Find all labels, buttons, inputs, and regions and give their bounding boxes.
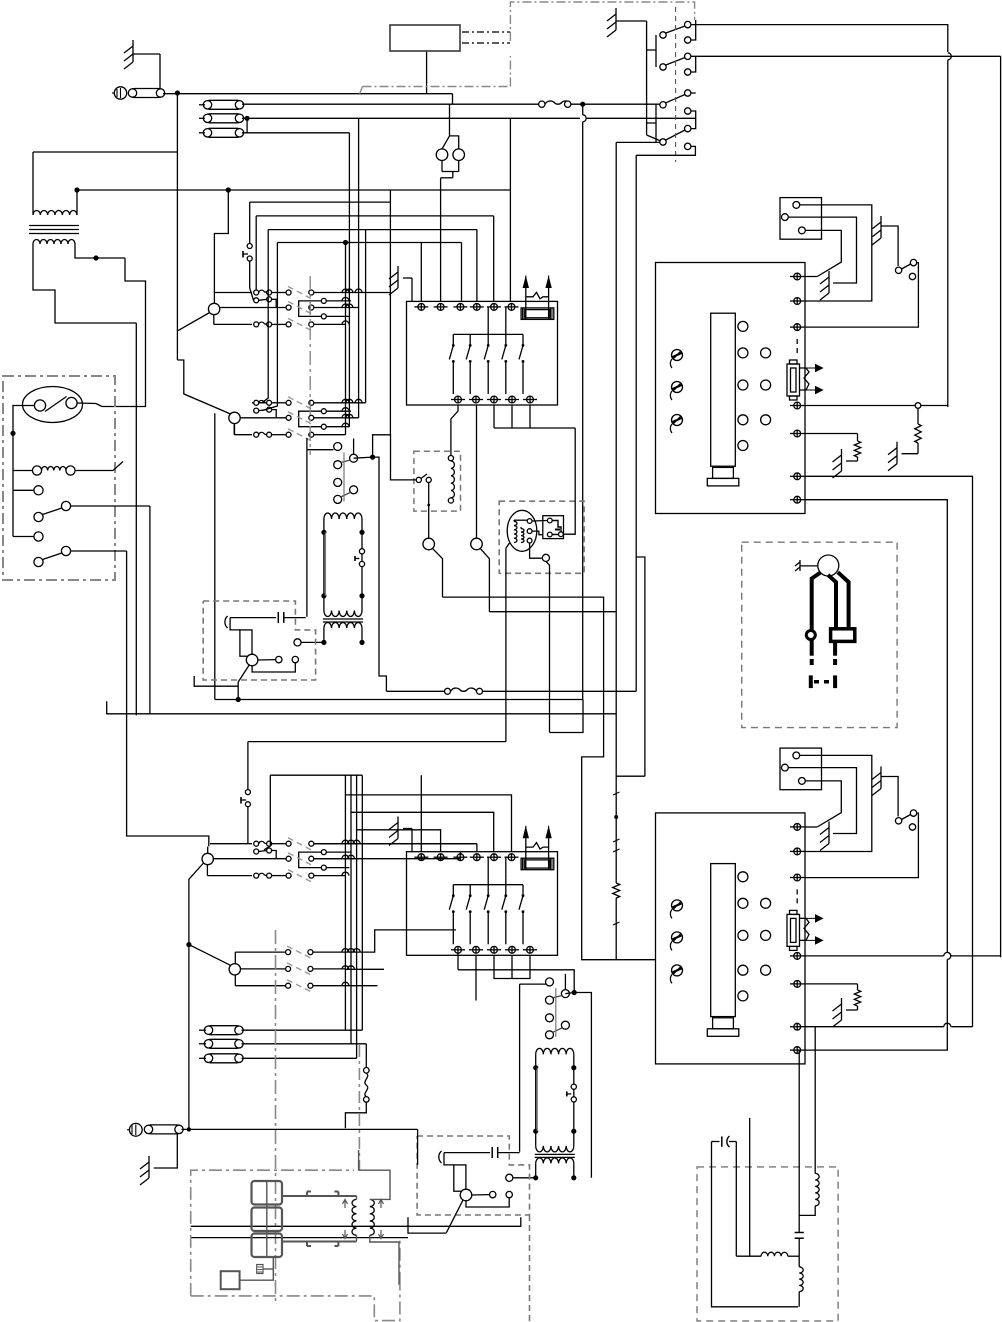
connector circle ign1	[542, 554, 549, 561]
flame sensor ellipse	[507, 510, 537, 551]
sensor coils	[514, 521, 524, 542]
module internal	[552, 521, 561, 535]
screw marks PCB2	[670, 900, 682, 984]
wire bank2 stubA	[262, 230, 268, 403]
control board box PCB2	[656, 813, 806, 1064]
wire F1 to rotary	[242, 103, 540, 105]
bus B4 x362	[361, 775, 363, 1030]
wire F1 stub left	[199, 105, 205, 133]
sensor rect igniter-2	[454, 1165, 466, 1191]
pressure sensor 63H2 circle + bank	[229, 397, 366, 441]
wire B2 row1 up	[345, 930, 456, 952]
cap C-top	[712, 1136, 737, 1147]
wire x799 down	[798, 1050, 800, 1232]
transformer T3 right coil	[370, 1199, 375, 1235]
wire pin3 blade CN2	[804, 781, 841, 827]
node T1 sec	[93, 255, 98, 260]
wire rect top igniter-2	[444, 1153, 454, 1165]
terminals top 52C1	[414, 304, 518, 311]
coil L1	[436, 149, 448, 161]
thermostat oval switch	[23, 387, 83, 423]
bus B2 x351	[350, 775, 352, 1044]
wire y428 line	[494, 405, 575, 428]
wire 5X sw left	[373, 435, 417, 480]
wire pin2 CN1	[788, 217, 856, 283]
cap C2	[795, 1233, 804, 1267]
coil LC horizontal	[736, 1252, 799, 1256]
striped connector	[257, 1265, 263, 1274]
wire y775 line	[270, 774, 362, 776]
node relay 52C	[572, 990, 577, 995]
wire B1 top feed	[207, 847, 209, 854]
relay contacts 52C	[546, 978, 570, 1039]
interrupter contact 52C	[567, 1084, 577, 1102]
ground Gb CN2	[872, 767, 881, 796]
wire diag out OL-51C	[238, 665, 249, 700]
dashed box LC filter	[697, 1167, 838, 1321]
ground Gd1	[833, 449, 842, 478]
T3 arrows	[343, 1200, 384, 1239]
wire stub B1b	[264, 775, 270, 850]
wire ladder y216	[256, 215, 494, 217]
connector pins CN1	[782, 202, 806, 234]
board fuse PCB1	[787, 339, 823, 400]
wire module top	[532, 520, 547, 523]
terminals bottom 52C2	[451, 946, 537, 953]
wire t7 loop	[804, 500, 950, 1050]
capacitor OL-51C	[230, 612, 306, 623]
pressure sensor 63H2' bank B2	[229, 946, 345, 992]
heater stack	[252, 1181, 283, 1257]
wire ign1 down2	[546, 562, 550, 733]
pressure sensor 63H1 circle + bank	[208, 287, 390, 331]
switch SW1 blades	[666, 26, 685, 140]
wire coil right	[75, 462, 123, 471]
wire loop bottom igniter-2	[466, 1198, 509, 1207]
wire S down	[345, 1102, 366, 1128]
wire x623	[636, 155, 645, 776]
wire 52X to OL cap	[306, 450, 308, 617]
boundary divider bottom2	[358, 1045, 360, 1170]
wire A switch to right rail	[691, 25, 951, 407]
wire O1 feed	[214, 190, 228, 303]
igniter module box	[543, 516, 564, 539]
wire igniter relay box	[414, 451, 461, 511]
pressure sensor 63H1' bank B1	[202, 838, 477, 882]
board terminals PCB2	[790, 824, 804, 1054]
wire B2 diag	[189, 945, 230, 966]
resistor R2	[846, 434, 861, 462]
node relay 52X	[370, 455, 375, 460]
wire B2 row2 end	[345, 968, 384, 970]
wire Gb to relay CN1	[881, 226, 898, 266]
wire T1 sec left down	[33, 244, 136, 323]
wire y713 line	[107, 701, 617, 714]
fuse F1 capsule	[203, 100, 243, 109]
wire ladder y230	[268, 229, 477, 231]
coil LC vertical	[799, 1267, 803, 1307]
sensor rect OL-51C	[240, 630, 252, 656]
ground (chassis) top-left	[124, 40, 160, 93]
wire B1 diag	[189, 863, 204, 1129]
bus V1 x345	[345, 243, 347, 435]
plug ground	[795, 560, 818, 571]
wire ladder2 y794	[345, 795, 511, 852]
wire 49C to T3 CN2	[804, 813, 918, 878]
ignition transformer secondary 52C	[533, 1154, 576, 1180]
wire ladder y202	[250, 190, 391, 202]
transformer T3 left coil	[343, 1196, 357, 1242]
connector pins CN2	[782, 752, 806, 784]
ground Ga CN2	[820, 822, 829, 851]
flame rod circle OL-51C	[246, 654, 258, 666]
wire t4 right	[804, 405, 947, 407]
switch SW1 contacts right	[685, 21, 691, 149]
wire diag out igniter-2	[408, 1200, 463, 1233]
wire 5X sw right down	[427, 483, 430, 539]
wire drop t4	[476, 230, 478, 301]
wire pin3 blade CN1	[804, 230, 841, 276]
wire jog to dashdot	[360, 87, 363, 94]
screw marks PCB1	[670, 350, 682, 434]
wire T3 out	[370, 1235, 399, 1284]
pin circles OL-51C	[276, 656, 299, 662]
wire R1 gnd	[902, 453, 919, 455]
wire chain C2	[489, 142, 616, 776]
board pins PCB1	[738, 321, 771, 450]
heater link bottom	[282, 1242, 343, 1247]
wire B switch row2	[691, 55, 1001, 57]
crankcase heater 52C1	[521, 276, 554, 320]
connector foot PCB1	[707, 467, 739, 486]
board connector strip PCB1	[711, 313, 736, 466]
wire secondary left 52X	[302, 641, 324, 643]
wire rail x126 lower	[127, 551, 209, 846]
plug circle	[818, 555, 839, 576]
bus V2 x349	[348, 133, 350, 427]
wire sw right stubs	[636, 20, 696, 155]
board terminals PCB1	[790, 273, 804, 503]
transformer T1 primary	[33, 211, 77, 216]
coil thermostat heater	[13, 466, 75, 475]
wire T3 feed	[359, 1150, 390, 1199]
wire pin2 CN2	[788, 768, 856, 834]
wire y732 line	[550, 700, 584, 733]
wire S1 out	[71, 505, 150, 507]
relay contacts 52X	[334, 443, 358, 504]
wire 5X coil top	[451, 405, 458, 456]
wire 52C top feed	[458, 952, 574, 992]
wire Gb to relay CN2	[881, 777, 898, 817]
boundary divider bottom1	[275, 930, 277, 1302]
switch 5X	[416, 474, 431, 483]
resistor R2b	[846, 984, 861, 1010]
wire OL out	[194, 676, 238, 686]
node T1-190	[74, 187, 79, 192]
terminals top 52C2	[414, 854, 518, 861]
wire circle igniter-2	[460, 1191, 489, 1195]
plug lower left	[809, 640, 814, 689]
wire x749 feed	[749, 1118, 751, 1256]
wire y691 feed	[379, 642, 386, 691]
plug rect	[831, 629, 855, 642]
ground Ga CN1	[820, 271, 829, 300]
wire relay feed B 52X	[354, 439, 373, 459]
ground Gd2	[833, 998, 842, 1027]
board connector strip PCB2	[711, 864, 736, 1017]
boundary divider top	[309, 276, 311, 455]
switch 49C CN2	[895, 810, 916, 830]
node F2 junction	[245, 116, 250, 121]
ground Gb CN1	[872, 216, 881, 245]
wire right loop 52X	[373, 457, 379, 642]
node chassis-rail	[187, 1127, 191, 1131]
wire oval left	[13, 406, 34, 471]
wire y691 line	[386, 688, 636, 694]
dashed box OL-51C	[203, 601, 315, 680]
ignition transformer primary 52X	[321, 513, 364, 617]
wire B1r1 ext	[314, 844, 477, 852]
wire ladder y242	[277, 242, 461, 244]
bus hops B	[342, 840, 360, 985]
connector circle 52X	[294, 639, 301, 646]
circle C2	[471, 538, 483, 550]
ground RB1	[389, 266, 412, 301]
bus hops group2	[342, 399, 362, 426]
wire lamps bottom bracket	[441, 161, 459, 302]
wire ladder2 y812	[351, 812, 494, 852]
dashed box igniter-1	[499, 501, 584, 573]
wire C2 top	[476, 405, 478, 538]
wire pin1 CN2	[800, 755, 872, 851]
fuse capsule D2	[199, 1039, 366, 1048]
node y190 x228	[226, 187, 231, 192]
contacts 52C2	[449, 857, 524, 944]
wire x815 down	[814, 1027, 816, 1174]
sensor chain x616	[613, 776, 645, 960]
wire L2 top	[450, 136, 459, 149]
wire lamp feed	[427, 51, 450, 149]
board pins PCB2	[738, 872, 771, 1001]
wire y1226 line	[191, 1217, 521, 1226]
wire aux links	[240, 1258, 274, 1280]
ignition transformer primary 52C	[533, 1048, 576, 1152]
wire switch common bracket	[616, 21, 660, 142]
node thermostat	[10, 431, 15, 436]
fuse capsule D1	[199, 1026, 362, 1035]
wire t5b drop	[529, 405, 531, 428]
wire y741 line	[248, 741, 506, 743]
wire rail x126 upper	[96, 258, 146, 407]
wire x583 down	[583, 104, 587, 699]
wire C1 diag	[433, 548, 443, 597]
boundary thermostat dash-dot box	[3, 376, 115, 580]
fuse F3 capsule	[203, 128, 243, 137]
terminals bottom 52C1	[451, 396, 537, 403]
resistor R1	[915, 408, 921, 453]
wire chain C1	[443, 597, 656, 960]
switch S2 thermostat	[13, 532, 71, 567]
ground Gc1	[888, 442, 897, 471]
wire secondary left 52C	[513, 1177, 535, 1179]
wire pin1 CN1	[800, 205, 872, 301]
bus V4 x365	[365, 230, 367, 403]
fuse capsule D3	[199, 1054, 357, 1063]
switch SW1 linkage dashed	[675, 7, 677, 162]
small box aux	[221, 1271, 240, 1289]
crankcase heater 52C2	[521, 826, 554, 870]
wire F2	[242, 117, 696, 119]
boundary heater dash-dot box	[191, 1170, 400, 1320]
circle C1	[423, 538, 435, 550]
node F0	[571, 102, 660, 107]
ground G2 top	[607, 8, 647, 37]
wire t5' right	[804, 983, 857, 985]
plug bottom dashes	[814, 680, 832, 684]
wire ign1 down1	[505, 548, 507, 742]
wire drop t1	[420, 243, 422, 302]
coil L3	[799, 1173, 819, 1215]
wire ign1 diag	[506, 543, 510, 548]
wire F3	[242, 118, 349, 133]
wire C2 diag	[480, 548, 489, 611]
wire loop bottom OL-51C	[252, 663, 295, 672]
wire D1 right	[345, 1029, 362, 1031]
wire circle OL-51C	[246, 656, 275, 660]
interrupter contact 52X	[355, 549, 365, 567]
plug ring	[806, 631, 815, 640]
bus B3 x356	[356, 775, 358, 1058]
fuse capsule bottom	[144, 1125, 183, 1134]
sensor pins	[527, 519, 532, 543]
wire S2 out	[71, 550, 127, 552]
wire T1 sec right	[75, 244, 96, 258]
wire t1' feed	[420, 775, 422, 852]
wire t6 loop	[804, 476, 972, 1026]
sensor wiring	[514, 520, 543, 558]
plug wires thick	[812, 572, 849, 630]
bus V3 x358	[358, 118, 360, 418]
wire drop t6	[509, 118, 511, 301]
node ladder-bus	[343, 240, 348, 245]
wire bank2 stubB	[262, 243, 277, 411]
wire right loop 52C	[574, 993, 591, 1178]
node t4	[915, 403, 921, 409]
relay 5X coil	[448, 456, 454, 504]
connector box CN1	[780, 198, 822, 240]
wire T1 primary left up	[33, 152, 177, 211]
wire relay feed A 52X	[307, 438, 334, 450]
fuse capsule (main)	[128, 89, 164, 98]
contacts 52C1	[449, 307, 524, 394]
plug lower right	[833, 641, 837, 688]
contactor box 52C2	[407, 852, 558, 956]
spark gap hook OL-51C	[225, 616, 228, 628]
push button PB2	[241, 742, 250, 844]
ignition transformer secondary 52X	[321, 619, 364, 645]
wire relay feed B 52C	[565, 974, 574, 994]
ground chassis bottom sym	[127, 1123, 142, 1136]
wire y699 line	[215, 699, 583, 701]
connector box CN2	[780, 748, 822, 790]
switch SW1 contacts left	[660, 32, 666, 145]
wire ladder2 y829	[357, 830, 441, 852]
heater link top	[282, 1192, 343, 1197]
bus B1 x345	[344, 775, 346, 1030]
wire B right rail down	[1000, 56, 1002, 957]
push button PB1	[243, 202, 254, 300]
wire O1 diag	[177, 313, 209, 331]
wire B1r3 ext	[314, 852, 461, 859]
protective earth terminal	[112, 87, 127, 99]
capacitor igniter-2	[444, 1147, 520, 1158]
coil L2	[453, 149, 465, 161]
contactor box 52C1	[407, 301, 558, 405]
wire sw stubs	[647, 35, 656, 142]
wire LC left	[712, 1142, 799, 1307]
thermostat contacts	[34, 397, 77, 412]
dashed box igniter plug assy	[742, 542, 897, 727]
wire drop t3	[461, 243, 463, 302]
wire T1 primary right up	[76, 190, 78, 215]
wire oval right to rail	[77, 402, 96, 405]
compressor plug outline	[390, 25, 510, 51]
wire t4'	[804, 952, 1000, 955]
control board box PCB1	[656, 263, 806, 514]
wire rect top OL-51C	[230, 618, 240, 630]
wire t6-t6'	[804, 1023, 972, 1026]
wire t5 right	[804, 433, 857, 435]
wire RB2 drops	[476, 955, 530, 1000]
wire chassis bottom	[182, 1129, 418, 1165]
wire to rail 126	[96, 257, 125, 259]
wire 49C to T3 CN1	[804, 263, 918, 328]
wire rail x136	[135, 323, 137, 715]
ground RB2	[389, 817, 412, 852]
node B1 join	[186, 942, 191, 947]
wire drop x390	[389, 202, 391, 435]
boundary compressor dash-dot box	[363, 2, 695, 87]
wire y1237 line	[191, 1237, 408, 1239]
wire O2 feed elbow	[177, 360, 230, 414]
wire rail x177 down	[176, 93, 178, 360]
wire LC mid	[735, 1142, 737, 1257]
bus hops group1	[342, 289, 362, 324]
wire gnd branch	[154, 1134, 178, 1168]
wire drop t5	[493, 216, 495, 301]
node junction x177	[175, 90, 180, 95]
wire B2 row3 end	[345, 985, 377, 987]
fuse F2 capsule	[203, 114, 243, 123]
wire module out	[563, 428, 575, 534]
flame rod circle igniter-2	[460, 1189, 472, 1201]
module pins	[547, 518, 563, 537]
wire O2 down	[215, 413, 235, 699]
fuse F0 inline	[539, 101, 571, 107]
boundary tail igniter-2	[529, 1215, 531, 1322]
transformer T1 secondary	[33, 240, 75, 245]
wire bus y190	[77, 189, 510, 191]
transformer T1 core	[29, 226, 79, 234]
wire main phase	[163, 94, 453, 105]
thermal fuse S	[364, 1044, 370, 1102]
spark gap hook igniter-2	[439, 1151, 442, 1163]
wire 52C c1 feed	[520, 984, 547, 1152]
switch S1 thermostat	[13, 471, 71, 537]
ground G-bot	[140, 1156, 149, 1185]
board fuse PCB2	[787, 889, 823, 950]
node y699	[236, 697, 241, 702]
